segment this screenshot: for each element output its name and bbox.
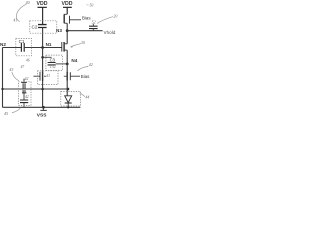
wire M4 drain to node N3 (66, 23, 68, 31)
leader dash for 50 (86, 4, 88, 6)
transistor M2 source stub (64, 43, 67, 45)
node junction dot on branch (41, 56, 44, 59)
ground VSS junction dot (42, 106, 45, 109)
wire N2 to C1 (3, 47, 22, 49)
svg-text:Bias: Bias (81, 74, 90, 79)
power VDD1 label (37, 1, 48, 7)
transistor M4 gate bar (69, 16, 71, 24)
transistor M2 gate bar (61, 42, 63, 52)
leader numeral 43 left (9, 67, 13, 72)
leader line to M2 (71, 44, 82, 47)
transistor M4 gate lead to Bias (70, 19, 82, 21)
leader arrowhead M2 (70, 46, 72, 48)
svg-text:52: 52 (92, 20, 96, 25)
transistor Q41 stub (23, 79, 25, 83)
wire branch to C3 (43, 56, 52, 58)
transistor M3 gate bar (69, 72, 71, 80)
node dot right end of wire89 (67, 88, 70, 91)
svg-text:47: 47 (21, 65, 25, 69)
svg-text:30: 30 (81, 40, 85, 45)
svg-text:C2: C2 (32, 25, 38, 30)
transistor M1 channel (42, 71, 44, 81)
svg-text:44: 44 (85, 94, 89, 99)
svg-text:VDD: VDD (37, 1, 48, 7)
leader numeral 20 top-right (113, 13, 117, 18)
ground VSS label (37, 113, 47, 119)
capacitor C52 lower stub (92, 29, 94, 31)
power VDD2 label (62, 1, 73, 7)
transistor M4 drain jog (64, 22, 67, 24)
label Bias mid (81, 74, 90, 79)
node dot N4 (66, 63, 69, 66)
leader numeral 30 (81, 40, 85, 45)
leader line from 20 (97, 17, 113, 24)
svg-text:N3: N3 (56, 28, 62, 33)
dashed box around C2 (30, 21, 57, 33)
label Bias top (82, 15, 91, 20)
svg-text:VDD: VDD (62, 1, 73, 7)
faint numeral 10 (90, 3, 94, 7)
capacitor C2 plates (38, 25, 47, 28)
capacitor C42 plates (20, 100, 28, 103)
ground VSS symbol (40, 107, 46, 110)
diode D1 triangle (65, 96, 72, 103)
wire bottom horizontal (y89) (3, 88, 69, 90)
numeral speck between Q41 and C42 (25, 95, 29, 99)
label C3 (50, 58, 56, 63)
dashed box around C1 (16, 38, 32, 55)
wire M1 drain to VSS rail (42, 81, 44, 107)
wire left vertical bus (2, 48, 4, 108)
capacitor C52 plates (89, 26, 98, 28)
numeral 52 (92, 20, 96, 25)
wire M2 drain to N4 (66, 50, 68, 64)
svg-text:45: 45 (4, 111, 8, 116)
svg-text:50: 50 (90, 3, 94, 7)
svg-text:N1: N1 (46, 42, 52, 47)
leader numeral small left (13, 19, 17, 23)
dashed box around C3 (46, 55, 63, 70)
leader numeral 44 (85, 94, 89, 99)
label C2 (32, 25, 38, 30)
power VSS rail (3, 106, 81, 108)
leader numeral 40 top-left (26, 0, 30, 5)
svg-text:132: 132 (50, 64, 56, 69)
wire N4 to M3 source (66, 64, 68, 73)
svg-text:42: 42 (25, 77, 29, 81)
transistor Q41 lower plates (23, 90, 25, 93)
svg-text:Bias: Bias (82, 15, 91, 20)
wire D1 to VSS rail (67, 103, 69, 107)
wire N3 to M2 source (66, 31, 68, 44)
wire N3 to output (67, 30, 102, 32)
transistor M1 gate lead (33, 75, 40, 77)
power VDD2 rail symbol (63, 7, 72, 14)
label C1 (19, 39, 25, 44)
node N2 label (0, 42, 6, 47)
diode D1 cathode bar (65, 102, 72, 104)
numeral 43 speck near M1 (46, 74, 50, 78)
leader line from 40 (16, 4, 26, 21)
wire C2 to node N1 (42, 28, 44, 48)
wire C1 to gate of M2 (24, 47, 62, 49)
leader line from 43 (12, 72, 19, 81)
svg-text:41: 41 (13, 19, 17, 23)
wire C42 to VSS rail (23, 103, 25, 108)
capacitor C3 plates (48, 63, 56, 65)
power VDD1 rail symbol (38, 7, 47, 24)
leader line to M3 (78, 66, 89, 70)
transistor M2 drain stub (64, 49, 67, 51)
wire to capacitor C42 (23, 93, 25, 100)
capacitor C52 stub (92, 24, 94, 26)
transistor Q41 lower bar (22, 92, 26, 94)
transistor M4 source jog (64, 13, 67, 15)
transistor Q41 top bar (21, 81, 27, 83)
capacitor C1 plates (21, 43, 24, 52)
numeral 42 small (25, 77, 29, 81)
label Vhold (104, 30, 116, 35)
transistor M4 channel (63, 14, 65, 23)
wire M3 drain down (66, 81, 68, 96)
svg-text:46: 46 (26, 58, 30, 62)
svg-text:20: 20 (113, 13, 117, 18)
svg-text:N4: N4 (71, 58, 77, 63)
svg-text:43: 43 (46, 74, 50, 78)
node dot D1 at rail (67, 106, 69, 108)
node dot M1 drain at wire89 (41, 88, 44, 91)
transistor M2 channel (63, 42, 65, 52)
numeral speck 47 (21, 65, 25, 69)
svg-text:42: 42 (25, 95, 29, 99)
transistor M1 gate bar (39, 72, 41, 81)
transistor M3 channel (66, 72, 68, 81)
node N4 label (71, 58, 77, 63)
node N1 junction dot (41, 46, 44, 49)
svg-text:VSS: VSS (37, 113, 47, 119)
numeral speck 46 (26, 58, 30, 62)
transistor M1 body arrow (44, 75, 46, 77)
node N1 label (46, 42, 52, 47)
node N3 label (56, 28, 62, 33)
node dot left bus at wire89 (1, 88, 3, 90)
transistor Q41 plates (23, 83, 25, 88)
wire N1 down branch (42, 48, 44, 72)
wire N4 horizontal (56, 63, 68, 65)
svg-text:Vhold: Vhold (104, 30, 116, 35)
leader numeral 42 mid-right (89, 62, 93, 67)
node N3 junction dot (66, 29, 69, 32)
transistor M3 body arrow (64, 75, 67, 77)
svg-text:C1: C1 (19, 39, 25, 44)
dashed box bottom-left block (18, 82, 31, 106)
transistor M3 gate lead (70, 75, 80, 77)
dashed box around M1 (38, 71, 58, 85)
svg-text:42: 42 (89, 62, 93, 67)
leader line from 45 (12, 108, 20, 113)
dashed box around D1 (61, 91, 81, 106)
svg-text:C3: C3 (50, 58, 56, 63)
svg-text:43: 43 (9, 67, 13, 72)
leader numeral 45 bottom-left (4, 111, 8, 116)
leader line to D1 box (80, 93, 85, 97)
svg-text:N2: N2 (0, 42, 6, 47)
label 132 (50, 64, 56, 69)
